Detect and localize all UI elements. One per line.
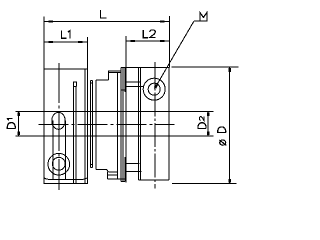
label D1 (rotated) — [7, 119, 15, 129]
right hub face line upper 2 (stops at screw hole) — [126, 86, 144, 88]
flange pair — [121, 68, 126, 182]
extension line L1 right — [86, 37, 88, 69]
dimension D2 — [207, 112, 210, 136]
set screw centerline (vertical dash-dot) — [154, 62, 156, 189]
extension line L2 left — [125, 36, 127, 67]
slit right line — [75, 87, 77, 184]
label L — [100, 10, 106, 18]
right hub face line upper 1 — [126, 81, 140, 83]
center body B1 — [96, 80, 109, 172]
label L2 — [143, 30, 155, 38]
dimension L1 line — [44, 41, 87, 43]
right hub face line lower 2 — [126, 171, 141, 173]
slit relief box — [74, 82, 77, 87]
right hub right edge — [168, 68, 170, 180]
right hub face line lower 1 — [126, 162, 140, 164]
bore top line — [16, 111, 214, 113]
lower clamp hole bore — [52, 157, 65, 170]
left hub chamfer tangent line with corner arcs — [44, 178, 87, 180]
main centerline (horizontal dash-dot) — [39, 124, 175, 126]
set screw hole outer circle — [143, 78, 165, 100]
extension line phi D top — [172, 66, 239, 68]
left hub inner step line — [84, 69, 86, 184]
extension line left (L) — [43, 17, 45, 70]
left hub outline — [44, 69, 87, 184]
label phi D (rotated) — [218, 127, 227, 145]
upper clamp hole — [52, 112, 65, 129]
dimension L line — [44, 20, 169, 22]
dimension L2 line — [126, 40, 169, 42]
clamp hole centerline (vertical dash-dot) — [58, 63, 60, 190]
leader line M — [154, 21, 194, 88]
center body B2 (stepped) — [108, 71, 125, 179]
disc line (OD = D) — [125, 67, 127, 182]
label D2 (rotated) — [198, 117, 206, 129]
bore bottom line — [16, 135, 214, 137]
set screw hole inner circle — [148, 83, 160, 95]
dimension D1 — [17, 112, 20, 136]
right hub top edge — [121, 67, 169, 69]
dimension line phi D — [228, 67, 231, 183]
extension line phi D bottom — [172, 182, 237, 184]
lower clamp hole counterbore — [48, 153, 70, 175]
label L1 — [62, 31, 70, 39]
extension line right (L, L2) — [168, 16, 170, 68]
right hub inner pair — [138, 68, 140, 180]
clamp hole wall left — [52, 120, 54, 179]
slit left line — [73, 87, 75, 184]
spacer ring pair P1 — [90, 80, 92, 167]
label M with underline — [194, 12, 207, 21]
clamp hole wall right — [64, 120, 66, 179]
right hub bottom edge — [138, 179, 169, 181]
